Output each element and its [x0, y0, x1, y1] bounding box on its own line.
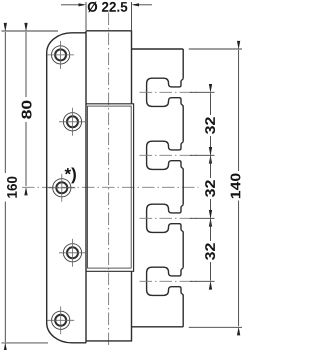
screw hole 4: [63, 244, 81, 262]
frame part right edge: [182, 49, 184, 78]
slot 2 centerline: [140, 154, 199, 156]
screw hole 2: [63, 113, 81, 131]
keyhole slot 1: [147, 78, 184, 106]
footnote mark: [65, 167, 76, 183]
barrel top segment: [86, 31, 132, 104]
plate right edge / barrel left edge: [85, 31, 87, 343]
barrel bottom segment: [86, 271, 132, 341]
dim text diameter 22.5: [88, 2, 128, 13]
keyhole slot 4: [147, 267, 184, 295]
frame part top edge: [132, 48, 184, 50]
hinge leaf plate outline: [47, 33, 87, 343]
middle sleeve knuckle: [86, 104, 134, 271]
frame part bottom edge: [132, 326, 184, 328]
screw hole 5: [52, 311, 70, 329]
slot 4 centerline: [140, 280, 199, 282]
dim 160 extension bottom: [2, 342, 49, 344]
screw hole 3: [53, 179, 71, 197]
dim 32 extension lines: [190, 91, 215, 93]
dim diameter 22.5 arrow left: [61, 4, 84, 6]
dim 160 extension top: [2, 30, 59, 32]
dim 140 extension bottom: [189, 326, 242, 328]
dim 80 line: [25, 32, 27, 97]
dim diameter 22.5 extension lines: [85, 2, 87, 30]
dim 140 extension top: [189, 48, 242, 50]
dim text 160: [7, 177, 17, 198]
screw hole 1: [52, 46, 70, 64]
dim 32 number 3: [210, 219, 212, 241]
keyhole slot 2: [147, 141, 184, 169]
dim 160 line: [4, 32, 6, 173]
sleeve inner window: [88, 106, 132, 268]
dim 140 line: [238, 50, 240, 171]
slot 1 centerline: [140, 91, 199, 93]
dim diameter 22.5 arrow right: [134, 4, 153, 6]
keyhole slot 3: [147, 204, 184, 232]
horizontal centerline of hinge: [22, 186, 199, 188]
dim 32 number 2: [210, 156, 212, 178]
vertical centerline of hinge pin: [108, 13, 110, 349]
dim 32 number 1: [210, 93, 212, 115]
dim text 140: [231, 173, 241, 198]
slot 3 centerline: [140, 217, 199, 219]
dim text 80: [22, 101, 32, 119]
